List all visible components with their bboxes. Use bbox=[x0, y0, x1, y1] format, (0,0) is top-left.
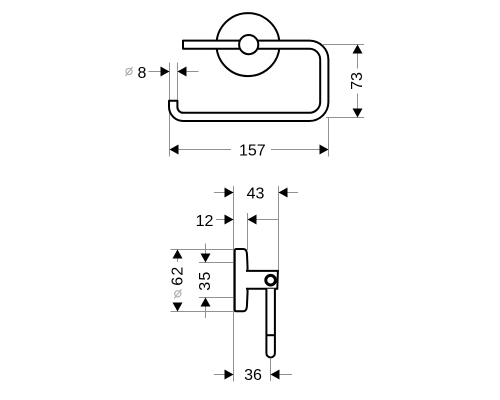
svg-text:12: 12 bbox=[196, 213, 214, 230]
svg-text:8: 8 bbox=[138, 65, 147, 82]
svg-text:36: 36 bbox=[244, 367, 262, 384]
svg-text:157: 157 bbox=[239, 143, 266, 160]
svg-text:43: 43 bbox=[247, 186, 265, 203]
svg-text:73: 73 bbox=[349, 72, 366, 90]
svg-text:35: 35 bbox=[197, 270, 214, 290]
svg-text:62: 62 bbox=[170, 265, 187, 285]
